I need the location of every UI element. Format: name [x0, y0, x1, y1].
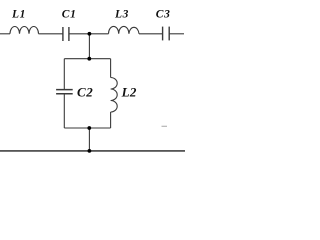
- svg-text:C3: C3: [156, 9, 171, 21]
- svg-text:C1: C1: [62, 9, 77, 21]
- svg-text:L3: L3: [114, 9, 129, 21]
- svg-text:L1: L1: [11, 9, 26, 21]
- svg-text:C2: C2: [77, 84, 93, 99]
- svg-text:L2: L2: [121, 84, 137, 99]
